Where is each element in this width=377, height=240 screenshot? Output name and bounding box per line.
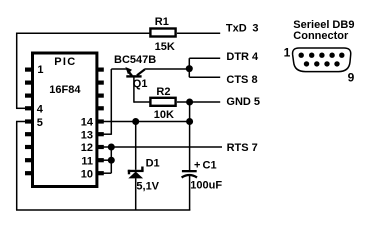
wire: left vertical from pin5 down to bottom rail [16, 122, 18, 211]
junction dot at bus/D1 branch node [132, 118, 139, 125]
pin stubs left side (pins 1-9) [25, 68, 31, 176]
svg-text:1: 1 [284, 46, 291, 60]
svg-text:BC547B: BC547B [114, 54, 156, 66]
wire: bottom ground rail [16, 209, 190, 211]
svg-text:RTS 7: RTS 7 [227, 142, 258, 154]
wire: R1 left wire from left loop to R1 [16, 32, 150, 34]
wire: D1 branch vertical lower [135, 178, 137, 210]
svg-text:100uF: 100uF [190, 179, 222, 191]
pin stubs right side (pins 10-18) [98, 68, 104, 176]
wire: C1 bottom vertical to rail [189, 175, 191, 210]
junction dot at DTR/CTS collector node [186, 65, 193, 72]
wire: pin 13 connection [103, 133, 111, 135]
junction dot at R2/GND node [186, 99, 193, 106]
capacitor C1 100uF [182, 160, 223, 192]
wire: pin 5 connection [16, 121, 26, 123]
svg-text:GND 5: GND 5 [226, 96, 260, 108]
svg-text:D1: D1 [146, 158, 160, 170]
wire: vertical tying pins 12,11,10 [110, 147, 112, 173]
DB9 pin dots bottom row (6-9) [304, 61, 340, 66]
svg-text:PIC: PIC [54, 56, 76, 68]
svg-text:10K: 10K [154, 109, 174, 121]
wire: R2 right / GND 5 wire [177, 101, 220, 103]
wire: Q1 base vertical down to R2 wire [133, 77, 135, 103]
wire: pin 4 connection [16, 107, 26, 109]
DB9 pin dots top row (1-5) [299, 53, 345, 58]
DB9 connector shell [293, 48, 351, 72]
svg-text:5: 5 [37, 117, 43, 129]
svg-text:13: 13 [81, 129, 93, 141]
svg-text:11: 11 [81, 155, 93, 167]
wire: bus from pin 14 to C1 branch [103, 121, 190, 123]
svg-text:15K: 15K [155, 41, 175, 53]
wire: R2 left wire [134, 101, 150, 103]
svg-text:R2: R2 [156, 86, 170, 98]
svg-text:TxD: TxD [226, 23, 247, 35]
svg-text:4: 4 [37, 104, 44, 116]
svg-text:5,1V: 5,1V [136, 181, 159, 193]
wire: DTR 4 wire [189, 57, 220, 59]
svg-text:Q1: Q1 [133, 78, 148, 90]
transistor Q1 BC547B [114, 54, 156, 90]
wire: collector wire from Q1 to DTR/CTS junction [145, 68, 190, 70]
svg-text:10: 10 [81, 168, 93, 180]
svg-text:14: 14 [81, 117, 94, 129]
svg-text:Connector: Connector [293, 30, 349, 42]
wire: vertical joining DTR and CTS [188, 58, 190, 77]
wire: R1 right wire to TxD [177, 32, 220, 34]
wire: D1 branch vertical upper [135, 122, 137, 170]
svg-text:1: 1 [37, 64, 43, 76]
resistor R1 [150, 16, 175, 53]
wire: left vertical from R1 wire down to pin4 [16, 33, 18, 109]
svg-text:3: 3 [252, 23, 258, 35]
svg-text:9: 9 [348, 71, 355, 85]
zener diode D1 5,1V [128, 158, 160, 193]
svg-text:12: 12 [81, 142, 93, 154]
wire: C1 top vertical from GND junction [189, 102, 191, 171]
svg-text:CTS 8: CTS 8 [226, 74, 257, 86]
svg-text:16F84: 16F84 [49, 84, 81, 96]
junction dot at bus/C1 branch node [186, 118, 193, 125]
svg-text:+: + [194, 160, 200, 172]
wire: CTS 8 wire [189, 76, 220, 78]
resistor R2 [150, 86, 175, 121]
wire: emitter wire to Q1 arrow [111, 68, 126, 70]
svg-text:C1: C1 [203, 160, 217, 172]
svg-text:DTR 4: DTR 4 [226, 51, 259, 63]
junction dot at RTS/pin12 node [108, 144, 115, 151]
wire: vertical from pin 13 up to emitter [110, 69, 112, 135]
wire: RTS 7 wire from pin 12 [103, 146, 222, 148]
svg-text:R1: R1 [155, 16, 169, 28]
junction dot at pin11 node [108, 157, 115, 164]
wire: pin 11 connection [103, 159, 111, 161]
IC U1 PIC 16F84 body [33, 53, 97, 187]
wire: pin 10 connection [103, 172, 111, 174]
